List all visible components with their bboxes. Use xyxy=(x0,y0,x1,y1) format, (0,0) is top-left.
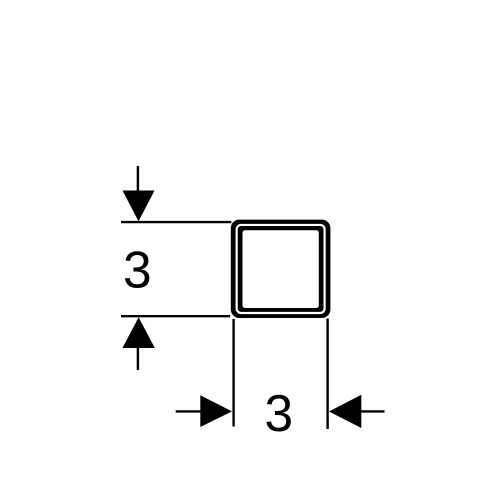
extension line bottom-left (height datum) xyxy=(121,315,230,317)
extension line top (height datum) xyxy=(121,221,231,223)
split line between inner and outer contour xyxy=(237,225,325,313)
extension line left (width datum) xyxy=(232,319,234,427)
horizontal dimension right arrowhead (pointing left) xyxy=(329,395,361,428)
square tube profile bore (inner contour) xyxy=(243,230,319,308)
horizontal dimension right stem xyxy=(361,410,385,412)
square tube profile wall (outer contour) xyxy=(231,220,331,318)
extension line right (width datum) xyxy=(326,319,328,430)
svg-text:3: 3 xyxy=(123,241,152,299)
horizontal dimension left stem xyxy=(176,410,201,412)
vertical dimension upper arrowhead (pointing down) xyxy=(123,191,155,222)
horizontal dimension left arrowhead (pointing right) xyxy=(200,395,232,427)
vertical dimension lower arrowhead (pointing up) xyxy=(123,317,155,348)
svg-text:3: 3 xyxy=(264,384,293,442)
vertical dimension lower stem xyxy=(137,347,139,370)
vertical dimension upper stem xyxy=(137,166,139,192)
